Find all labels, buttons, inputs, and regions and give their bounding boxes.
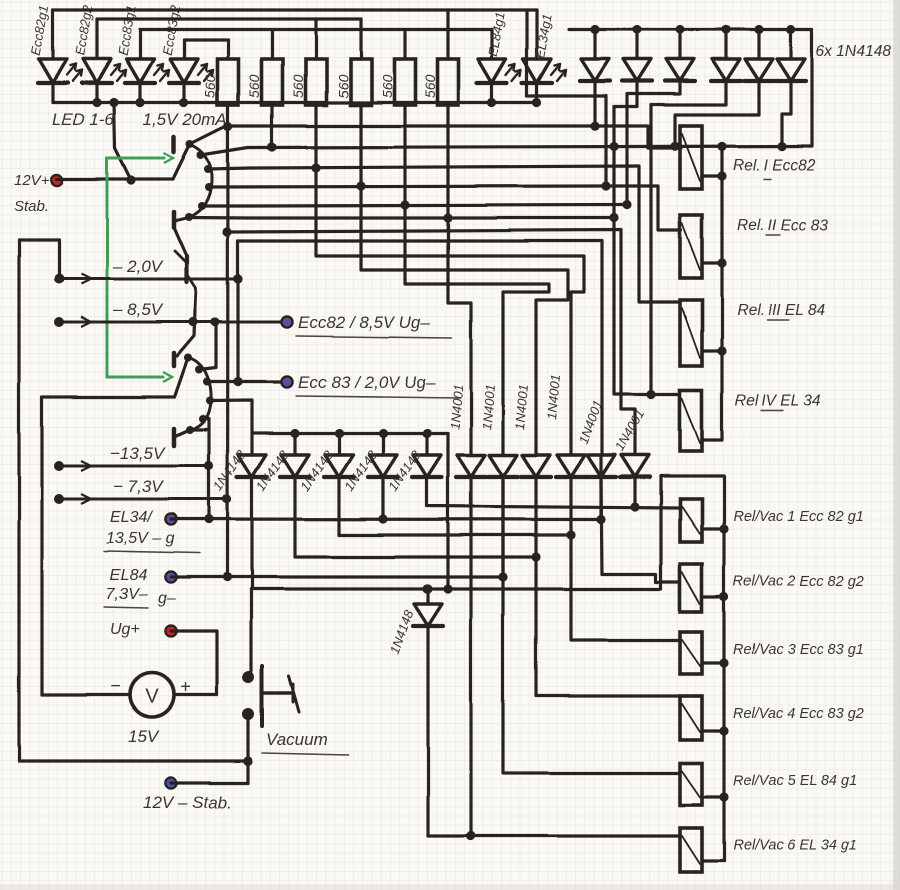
junction on relay rail xyxy=(717,346,726,355)
wire relay right stub xyxy=(702,349,722,352)
junction on anode rail xyxy=(334,429,343,438)
relay Rel/Vac 6 coil xyxy=(680,828,702,872)
svg-text:560: 560 xyxy=(422,74,438,98)
wire R2 column xyxy=(270,105,273,147)
diode D5 1N4148 xyxy=(425,434,428,456)
contact SW2 xyxy=(195,366,203,374)
svg-text:Rel. I Ecc82: Rel. I Ecc82 xyxy=(733,157,816,174)
wire DT2 drop to Rel IV xyxy=(614,81,680,394)
wire DT3 drop xyxy=(627,81,680,205)
transistor Q1 xyxy=(185,256,189,282)
svg-text:−: − xyxy=(110,676,121,696)
relay Rel/Vac 3 coil xyxy=(680,632,702,674)
junction on top rail xyxy=(754,25,763,34)
diode D4001-3 1N4001 xyxy=(522,455,550,477)
junction on lower rail xyxy=(719,792,728,801)
fan wire f5 xyxy=(202,205,627,206)
selector SW1 arc xyxy=(188,144,212,218)
junction xyxy=(596,515,605,524)
wire EL34 g line xyxy=(171,455,601,520)
wire vacuum riser xyxy=(249,589,252,677)
junction on top rail xyxy=(721,25,730,34)
junction on top rail xyxy=(786,25,795,34)
diode D4001-5 1N4001 xyxy=(587,455,615,477)
junction f3-R3 xyxy=(311,163,320,172)
svg-text:Rel/Vac 6 EL 34 g1: Rel/Vac 6 EL 34 g1 xyxy=(733,838,857,854)
terminal EL84 g (violet) xyxy=(165,571,176,582)
wire LED1 to R6/LED6 top xyxy=(53,8,537,11)
wire DT1 drop xyxy=(593,81,596,126)
junction f6-R6 xyxy=(443,213,452,222)
wire left loop V42 to meter xyxy=(40,398,43,695)
wire relay right stub xyxy=(702,261,722,264)
terminal 12V- (blue) xyxy=(165,777,176,788)
junction xyxy=(222,494,231,503)
junction xyxy=(204,514,213,523)
svg-text:15V: 15V xyxy=(128,727,160,746)
junction on LED rail xyxy=(135,98,144,107)
junction on LED rail xyxy=(179,98,188,107)
svg-text:Rel/Vac 1 Ecc 82 g1: Rel/Vac 1 Ecc 82 g1 xyxy=(733,509,864,525)
fan wire f2 / relay common link xyxy=(201,146,812,155)
svg-text:−13,5V: −13,5V xyxy=(110,444,166,463)
wire relay right stub xyxy=(702,527,724,530)
wire vacuum bottom drop xyxy=(247,714,250,783)
LED 5 (EL84g1) xyxy=(490,30,493,60)
resistor R6 560 xyxy=(446,10,449,59)
relay Rel/Vac 4 coil xyxy=(680,696,702,740)
wire SW2 c1 diag xyxy=(175,358,189,397)
svg-text:EL84: EL84 xyxy=(110,567,147,584)
wire D3 cathode row xyxy=(339,477,571,535)
wire rail end drop xyxy=(446,434,449,590)
junction on relay rail xyxy=(717,258,726,267)
junction on lower rail xyxy=(719,658,728,667)
wire T1 drop to V606 xyxy=(527,10,606,186)
junction xyxy=(630,502,639,511)
junction xyxy=(222,572,231,581)
svg-text:560: 560 xyxy=(246,74,262,98)
junction f2-d2 xyxy=(609,142,618,151)
wire -2,0V line xyxy=(54,274,64,284)
wire LED2 to R3/R4 top xyxy=(97,17,361,20)
diode D6 1N4148 xyxy=(426,589,429,604)
wire R3 column + stair to D4001-4 xyxy=(316,105,584,455)
wire R6 column + jog to D4001-1 xyxy=(448,105,471,455)
svg-text:560: 560 xyxy=(335,74,351,98)
junction on anode rail xyxy=(290,429,299,438)
LED 6 (EL34g1) xyxy=(535,10,538,59)
wire D4001-3 cathode to Rel/Vac4 xyxy=(536,480,680,696)
svg-text:Stab.: Stab. xyxy=(14,198,49,215)
junction xyxy=(423,584,432,593)
contact SW2 xyxy=(184,354,192,362)
contact SW2 xyxy=(186,426,194,434)
vacuum switch bar xyxy=(260,666,264,726)
selector SW1 lower bar xyxy=(172,212,177,227)
svg-text:Rel/Vac 2 Ecc 82 g2: Rel/Vac 2 Ecc 82 g2 xyxy=(733,574,864,590)
LED cathode rail xyxy=(53,101,537,104)
wire D4001-1 cathode drop xyxy=(469,477,472,836)
LED 3 (Ecc83g1) xyxy=(138,30,141,60)
selector SW2 arc xyxy=(189,358,211,431)
diode D4001-1 1N4001 xyxy=(457,455,485,477)
svg-text:Ug+: Ug+ xyxy=(110,621,140,638)
wire relay right stub xyxy=(702,174,722,177)
junction xyxy=(126,175,135,184)
contact SW2 xyxy=(203,378,211,386)
wire 1N4148 anode rail xyxy=(252,432,448,435)
contact SW1 xyxy=(204,165,212,173)
vacuum switch contact bottom xyxy=(243,708,255,720)
junction xyxy=(222,227,231,236)
diode D4001-2 1N4001 xyxy=(489,455,517,477)
wire relay right stub xyxy=(702,438,722,441)
vacuum switch contact top xyxy=(243,671,255,683)
wire D2 cathode row xyxy=(295,477,536,557)
diode DT3 1N4148 xyxy=(678,30,681,60)
wire R1 column xyxy=(226,105,230,577)
junction on lower rail xyxy=(719,524,728,533)
voltmeter V 15V xyxy=(130,673,174,717)
junction xyxy=(233,377,242,386)
terminal Ug+ (red) xyxy=(165,625,176,636)
contact SW1 xyxy=(205,183,213,191)
wire bottom-left rail xyxy=(19,759,249,762)
junction DT1-f1 xyxy=(590,122,599,131)
diode D4001-4 1N4001 xyxy=(557,455,585,477)
svg-text:– 8,5V: – 8,5V xyxy=(112,300,164,319)
terminal Ecc83 Ug (violet) xyxy=(281,376,292,387)
wire lower relay rail xyxy=(661,476,724,861)
junction xyxy=(210,317,219,326)
wire D4 cathode stub xyxy=(381,477,384,519)
svg-text:g–: g– xyxy=(158,590,176,607)
svg-text:6x 1N4148: 6x 1N4148 xyxy=(816,43,891,60)
svg-text:– 2,0V: – 2,0V xyxy=(112,257,164,276)
wire LED3 to R2/R5/LED5 top xyxy=(140,28,492,31)
contact SW2 xyxy=(199,415,207,423)
junction f6-V614 xyxy=(609,213,618,222)
wire -7,3V line xyxy=(54,494,64,504)
svg-text:Ecc 83 / 2,0V Ug–: Ecc 83 / 2,0V Ug– xyxy=(298,373,436,392)
resistor R4 560 xyxy=(359,19,362,59)
relay Rel.I coil xyxy=(680,126,702,189)
wire D5 cathode row to Rel/Vac1 xyxy=(427,477,680,508)
selector SW2 wiper bar xyxy=(172,353,177,366)
junction f2-d6 xyxy=(777,142,786,151)
junction on relay rail xyxy=(717,171,726,180)
terminal EL34 g (violet) xyxy=(165,513,176,524)
wire Ug+ to meter + xyxy=(171,631,217,695)
svg-text:Rel. III EL 84: Rel. III EL 84 xyxy=(737,302,825,319)
svg-text:12V+: 12V+ xyxy=(14,172,50,189)
vacuum switch tbar xyxy=(264,691,293,694)
svg-text:Rel IV EL 34: Rel IV EL 34 xyxy=(735,392,821,409)
svg-text:+: + xyxy=(180,677,191,697)
junction f2-R2 xyxy=(267,142,276,151)
junction xyxy=(531,552,540,561)
wire SW2 c6 link xyxy=(174,430,190,437)
wire relay right stub xyxy=(702,859,724,862)
junction on anode rail xyxy=(422,429,431,438)
contact SW1 xyxy=(185,213,193,221)
diode DT4 1N4148 xyxy=(724,30,727,60)
junction on LED rail xyxy=(487,98,496,107)
wire D4001-2 cathode to Rel/Vac5 xyxy=(503,480,680,773)
resistor R2 560 xyxy=(270,30,273,60)
svg-text:V: V xyxy=(145,686,159,708)
junction f5-d3drop xyxy=(622,200,631,209)
wire 12V- stub xyxy=(171,781,249,784)
diode D4001-6 1N4001 xyxy=(621,455,649,477)
wire top rail right drop xyxy=(810,30,813,147)
wire relay right stub xyxy=(702,661,724,664)
wire LED rail drop xyxy=(114,103,131,181)
svg-text:1,5V 20mA: 1,5V 20mA xyxy=(143,110,227,129)
junction on lower rail xyxy=(719,592,728,601)
terminal 12V+ (red) xyxy=(51,174,62,185)
wire R4 column + stair to D4001-3 xyxy=(361,105,568,455)
fan wire f3 to Rel.III xyxy=(208,166,680,302)
contact SW1 xyxy=(197,151,205,159)
wire relay right stub xyxy=(702,729,724,732)
svg-text:EL34/: EL34/ xyxy=(110,509,153,526)
wire R5 column + stair to D4001-2 xyxy=(405,105,549,455)
wire top diode rail xyxy=(569,28,812,31)
junction on top rail xyxy=(675,25,684,34)
junction on lower rail xyxy=(719,726,728,735)
relay Rel.IV coil xyxy=(680,390,702,451)
selector SW1 wiper bar xyxy=(172,137,177,152)
diode D2 1N4148 xyxy=(293,434,296,456)
relay Rel/Vac 1 coil xyxy=(680,499,702,542)
svg-text:Vacuum: Vacuum xyxy=(266,730,328,749)
junction xyxy=(646,389,655,398)
wire -2,0V riser + stair to D4001-5 xyxy=(236,241,239,382)
fan wire f6 xyxy=(189,216,614,220)
contact SW1 xyxy=(198,202,206,210)
wire D4001-5 cathode to Rel/Vac2 xyxy=(601,480,680,582)
diode DT6 1N4148 xyxy=(789,30,792,60)
junction f2-rail xyxy=(717,142,726,151)
svg-text:− 7,3V: − 7,3V xyxy=(113,477,164,496)
junction xyxy=(466,831,475,840)
junction f1-R1 xyxy=(223,122,232,131)
wire EL84 g line xyxy=(171,480,503,577)
svg-text:LED 1-6: LED 1-6 xyxy=(52,110,115,129)
wire SW2 c5 drop xyxy=(203,419,209,519)
wire SW2 wiper left line xyxy=(42,395,175,398)
wire left border xyxy=(17,240,20,761)
wire DT6 drop xyxy=(782,81,791,146)
junction xyxy=(204,461,213,470)
junction on anode rail xyxy=(378,429,387,438)
fan wire f4 to Rel.II xyxy=(209,186,681,230)
diode D4 1N4148 xyxy=(381,434,384,456)
junction xyxy=(233,274,242,283)
diode DT2 1N4148 xyxy=(635,30,638,60)
junction on LED rail xyxy=(92,98,101,107)
wire SW1 bar to Q1 xyxy=(174,227,186,254)
wire LED4 to R1 top xyxy=(184,38,228,41)
relay Rel/Vac 5 coil xyxy=(680,763,702,805)
selector SW2 lower bar xyxy=(172,429,177,446)
junction xyxy=(422,584,431,593)
wire green link xyxy=(107,157,164,160)
junction on LED rail xyxy=(532,98,541,107)
junction xyxy=(443,584,452,593)
svg-text:12V – Stab.: 12V – Stab. xyxy=(143,793,232,812)
svg-text:560: 560 xyxy=(379,74,395,98)
wire relay right stub xyxy=(702,595,724,598)
vacuum switch lever xyxy=(289,676,299,712)
wire 12V+ to selector xyxy=(57,177,173,180)
svg-text:Rel. II Ecc 83: Rel. II Ecc 83 xyxy=(737,217,828,234)
junction f2-d5 xyxy=(670,142,679,151)
junction on top rail xyxy=(590,25,599,34)
terminal Ecc82 Ug (violet) xyxy=(281,316,292,327)
wire SW2 c2 riser xyxy=(199,322,216,370)
junction xyxy=(498,572,507,581)
svg-text:Rel/Vac 4 Ecc 83 g2: Rel/Vac 4 Ecc 83 g2 xyxy=(733,706,864,722)
wire D1 cathode row xyxy=(252,477,661,589)
wire DT4 drop xyxy=(651,81,726,394)
resistor R1 560 xyxy=(226,40,229,59)
wire -13,5V line xyxy=(54,461,64,471)
wire D4001-6 cathode stub xyxy=(633,477,636,507)
contact SW1 xyxy=(186,140,194,148)
svg-text:Rel/Vac 3 Ecc 83 g1: Rel/Vac 3 Ecc 83 g1 xyxy=(733,642,864,658)
junction xyxy=(244,756,253,765)
junction xyxy=(188,317,197,326)
LED 2 (Ecc82g2) xyxy=(95,19,98,59)
junction f5-R5 xyxy=(400,200,409,209)
svg-text:Rel/Vac 5 EL 84 g1: Rel/Vac 5 EL 84 g1 xyxy=(733,773,857,789)
wire relay right stub xyxy=(702,795,724,798)
resistor R5 560 xyxy=(403,30,406,60)
junction xyxy=(378,514,387,523)
relay Rel.III coil xyxy=(680,300,702,366)
wire V194 wiper feed xyxy=(177,310,195,356)
wire relay rail upper xyxy=(720,146,723,440)
svg-text:7,3V–: 7,3V– xyxy=(106,586,148,603)
junction f4-d3drop xyxy=(601,181,610,190)
LED 1 (Ecc82g1) xyxy=(51,10,54,59)
LED 4 (Ecc83g2) xyxy=(182,40,185,59)
wire SW1 c6 link xyxy=(174,218,189,222)
wire bottom rail to Rel/Vac6 xyxy=(428,834,680,837)
diode D1 1N4148 xyxy=(250,434,253,456)
diode D3 1N4148 xyxy=(337,434,340,456)
wire D4001-4 cathode to Rel/Vac3 xyxy=(571,480,680,640)
wire SW2 c4 row xyxy=(210,401,252,434)
svg-text:13,5V – g: 13,5V – g xyxy=(106,530,175,547)
wire DT5 drop xyxy=(675,81,759,146)
junction f4-R4 xyxy=(356,181,365,190)
diode DT5 1N4148 xyxy=(757,30,760,60)
junction xyxy=(566,530,575,539)
relay Rel/Vac 2 coil xyxy=(680,564,702,612)
diode DT1 1N4148 xyxy=(593,30,596,60)
wire SW2 c3 to Ecc83 terminal xyxy=(207,380,284,383)
wire stair to D4001-6 xyxy=(227,230,635,455)
fan wire f1 to Rel.I xyxy=(190,126,681,148)
relay Rel.II coil xyxy=(680,215,702,278)
svg-text:560: 560 xyxy=(202,74,218,98)
junction xyxy=(109,98,118,107)
svg-text:560: 560 xyxy=(290,74,306,98)
svg-text:Ecc82 / 8,5V Ug–: Ecc82 / 8,5V Ug– xyxy=(298,313,431,332)
wire -8,5V line xyxy=(54,317,64,327)
contact SW2 xyxy=(206,397,214,405)
resistor R3 560 xyxy=(314,19,317,59)
junction on top rail xyxy=(632,25,641,34)
